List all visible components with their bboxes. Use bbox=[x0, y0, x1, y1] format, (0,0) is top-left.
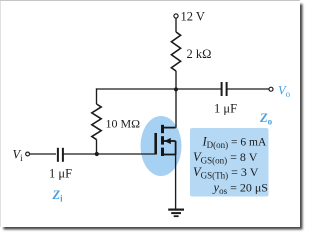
svg-text:10 MΩ: 10 MΩ bbox=[106, 117, 141, 131]
svg-text:12 V: 12 V bbox=[181, 10, 205, 24]
svg-text:2 kΩ: 2 kΩ bbox=[187, 47, 212, 61]
svg-text:1 μF: 1 μF bbox=[214, 102, 237, 116]
svg-text:1 μF: 1 μF bbox=[49, 167, 72, 181]
